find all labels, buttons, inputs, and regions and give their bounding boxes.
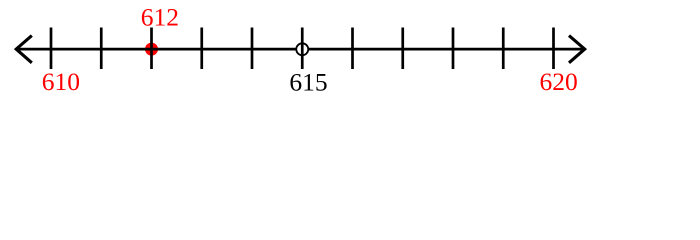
number line [17,48,584,51]
right arrowhead [569,36,585,63]
svg-text:612: 612 [141,3,179,32]
tick marks [51,28,554,70]
closed point at 612 (red dot) [145,43,158,56]
left arrowhead [16,36,32,63]
svg-text:620: 620 [539,67,577,96]
open point at 615 (white circle) [296,43,308,55]
svg-text:610: 610 [42,67,80,96]
svg-text:615: 615 [289,67,327,96]
